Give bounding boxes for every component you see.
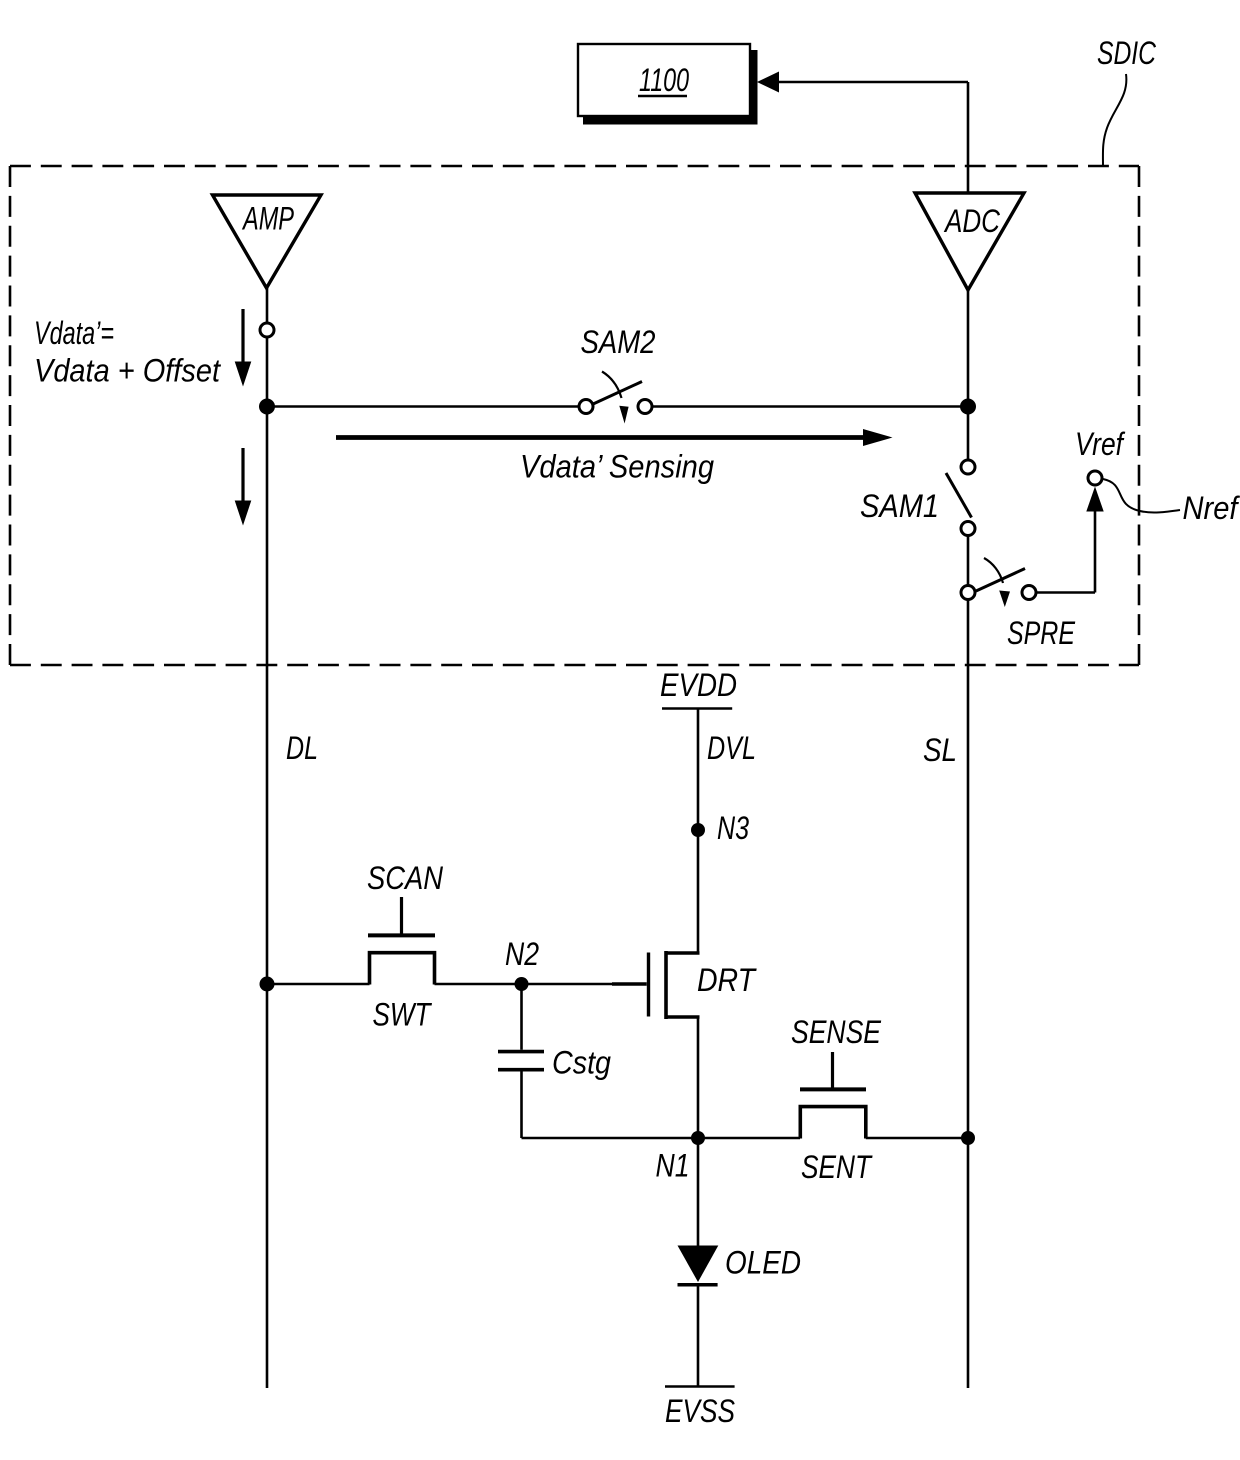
wire DL vertical [266,338,269,1388]
block 1100 shadow [583,50,758,125]
node N1 [691,1131,705,1145]
dashed box SDIC boundary [10,165,1139,168]
svg-text:Vref: Vref [1075,426,1125,462]
transistor SENT gate [831,1052,834,1088]
diode OLED [678,1246,719,1285]
svg-text:Nref: Nref [1183,490,1240,526]
label Vdata' equation [34,315,222,389]
leader Nref squiggle [1103,479,1180,513]
label SL [923,732,957,768]
wire SL lower [967,536,970,1388]
wire DVL [697,709,700,954]
arrowhead into 1100 [757,72,779,93]
label DL [286,730,318,766]
svg-text:EVSS: EVSS [665,1393,735,1429]
svg-text:SPRE: SPRE [1007,615,1075,651]
svg-text:Vdata + Offset: Vdata + Offset [34,353,222,389]
svg-text:SAM2: SAM2 [581,324,656,360]
label Cstg [552,1045,611,1081]
svg-text:SWT: SWT [373,997,433,1033]
svg-text:SENSE: SENSE [791,1014,881,1050]
wire SWT to DRT gate [435,983,614,986]
label DRT [697,962,757,998]
terminal Vref [1088,471,1102,485]
node N2 [515,977,529,991]
switch SPRE [961,558,1036,607]
label Vref [1075,426,1125,462]
svg-text:OLED: OLED [725,1245,801,1281]
wire DRT source to N1 [697,1017,700,1138]
svg-text:SAM1: SAM1 [860,488,939,524]
svg-text:Vdata’=: Vdata’= [34,315,114,351]
node junction SENT-SL [961,1131,975,1145]
wire SAM2 to SL node [652,405,968,408]
svg-text:ADC: ADC [943,203,1000,239]
node junction on DL [259,399,275,415]
label SAM1 [860,488,939,524]
svg-text:SENT: SENT [801,1149,873,1185]
svg-text:DVL: DVL [707,730,756,766]
svg-text:SCAN: SCAN [367,860,443,896]
arrow down upper [241,309,244,363]
svg-text:Cstg: Cstg [552,1045,611,1081]
label SCAN [367,860,443,896]
label SENSE [791,1014,881,1050]
label SWT [373,997,433,1033]
label SAM2 [581,324,656,360]
label SENT [801,1149,873,1185]
svg-text:DL: DL [286,730,318,766]
op-amp ADC [915,193,1024,290]
switch SAM2 [579,372,652,424]
wire SENT to SL [866,1137,968,1140]
svg-text:N1: N1 [656,1148,690,1184]
node junction on SL [960,399,976,415]
svg-text:N3: N3 [717,810,749,846]
transistor DRT [649,951,700,1019]
terminal circle on DL [260,323,274,337]
svg-text:DRT: DRT [697,962,757,998]
wire SPRE to Vref [1037,591,1096,594]
ground EVSS [665,1385,735,1388]
label OLED [725,1245,801,1281]
block 1100 [578,44,750,116]
power EVDD [660,667,737,703]
capacitor Cstg [498,984,544,1138]
wire DL to SWT [267,983,370,986]
transistor SWT channel [370,953,435,985]
wire OLED to EVSS [697,1287,700,1387]
wire ADC output to 1100 [779,81,968,84]
label Nref [1183,490,1240,526]
svg-text:N2: N2 [505,936,539,972]
op-amp AMP [213,195,322,288]
wire N1 to OLED [697,1138,700,1246]
svg-text:Vdata’ Sensing: Vdata’ Sensing [520,449,714,485]
transistor SENT channel [800,1107,866,1139]
svg-text:SL: SL [923,732,957,768]
switch SAM1 [946,460,975,536]
wire Cstg to SENT [522,1137,801,1140]
arrow down lower [241,448,244,502]
transistor SWT gate [400,897,403,934]
label SPRE [1007,615,1075,651]
leader SDIC squiggle [1103,74,1126,166]
arrow Vdata' Sensing [336,435,864,440]
svg-text:SDIC: SDIC [1097,35,1156,71]
wire node to SAM2 [267,405,580,408]
label Vdata' Sensing [520,449,714,485]
svg-text:AMP: AMP [242,201,295,237]
node junction DL-SWT [260,977,275,992]
label SDIC [1097,35,1156,71]
wire SL upper [967,290,970,460]
svg-text:EVDD: EVDD [660,667,737,703]
wire AMP output [266,288,269,322]
node N3 [691,823,705,837]
svg-text:1100: 1100 [639,62,689,98]
label DVL [707,730,756,766]
label 1100 [639,62,689,98]
